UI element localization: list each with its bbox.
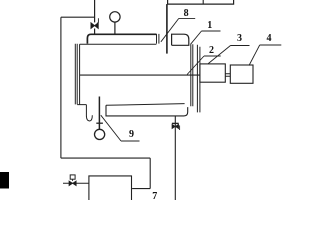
leader line for label 1 bbox=[191, 31, 202, 44]
label 4 text bbox=[267, 33, 272, 44]
tank feed line with valve bbox=[63, 182, 89, 184]
pressure gauge circle bbox=[110, 12, 120, 22]
tank valve bowtie bbox=[69, 181, 76, 186]
tank 7 bbox=[89, 176, 132, 200]
leader line for label 9 bbox=[101, 115, 121, 141]
label 3 underline bbox=[231, 45, 250, 47]
gearbox box bbox=[200, 64, 225, 82]
label 4 underline bbox=[260, 44, 282, 46]
drain valve flange bbox=[172, 122, 179, 124]
leader line for label 8 bbox=[161, 18, 179, 41]
right end plate double lines bbox=[191, 44, 193, 106]
gauge stem bbox=[114, 22, 116, 34]
small valve cross on dip tube bbox=[96, 122, 103, 124]
label 1 text bbox=[207, 20, 212, 31]
drain pipe on vessel bottom right bbox=[174, 116, 176, 200]
scan artifact black square bbox=[0, 172, 9, 189]
label 3 text bbox=[237, 33, 242, 44]
tank valve stem bbox=[72, 179, 74, 181]
vessel body bottom edge right section bbox=[106, 104, 185, 106]
wire: top feed pipe vertical into valve bbox=[94, 0, 96, 22]
leader line for label 2 bbox=[187, 56, 204, 75]
vessel top opening left wall bbox=[157, 34, 159, 44]
motor box bbox=[230, 65, 253, 83]
vessel body top edge bbox=[80, 43, 157, 45]
tank valve handle square bbox=[70, 175, 75, 179]
wire: bottom run to the right bbox=[61, 157, 150, 159]
header box divider bbox=[202, 0, 204, 4]
vessel body left edge bbox=[79, 44, 81, 104]
vessel top rim with left rounded corner bbox=[87, 34, 156, 43]
drain valve bowtie bbox=[172, 124, 179, 128]
label 8 text bbox=[184, 8, 189, 19]
label 8 underline bbox=[179, 17, 195, 19]
label 2 text bbox=[209, 45, 214, 56]
label 9 text bbox=[129, 129, 134, 140]
bottom rim with down-leg and right rounded corner bbox=[106, 105, 188, 116]
right bearing support double lines bbox=[197, 45, 200, 113]
wire: branch line going left at y=17 bbox=[61, 16, 95, 18]
valve stem tick bbox=[97, 18, 98, 23]
vessel body bottom edge left piece with J-curve drain lip bbox=[77, 105, 92, 121]
label 1 underline bbox=[202, 30, 221, 32]
label 7 text bbox=[152, 191, 157, 202]
wire: valve to vessel top bbox=[94, 29, 96, 34]
label 9 underline bbox=[121, 140, 140, 142]
wire: into tank right side bbox=[132, 188, 150, 190]
top header box bbox=[168, 0, 234, 4]
label 2 underline bbox=[204, 55, 221, 57]
coupling double line bbox=[225, 74, 230, 77]
wire: long left downpipe bbox=[60, 17, 62, 158]
left end plate double lines bbox=[75, 44, 77, 105]
valve on top feed pipe bbox=[91, 23, 98, 29]
drain dip tube double lines bbox=[98, 97, 100, 130]
drain valve side tick bbox=[179, 125, 181, 130]
leader line for label 4 bbox=[249, 45, 260, 66]
stirrer shaft center line bbox=[80, 74, 200, 76]
sight ball circle 9 bbox=[95, 129, 105, 139]
wire: elbow down bbox=[149, 158, 151, 189]
leader line for label 3 bbox=[208, 46, 230, 64]
top dome with rounded corner (part 1) bbox=[172, 34, 189, 45]
feed pipe from header into vessel bbox=[166, 4, 168, 54]
